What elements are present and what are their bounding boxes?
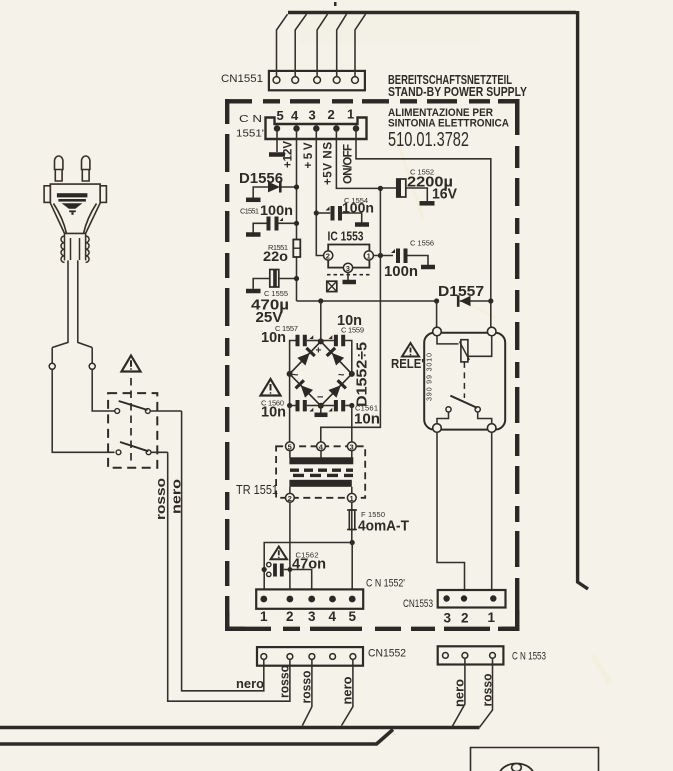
capacitor C1559 plates <box>336 335 343 346</box>
wire C1555 right lead <box>279 278 297 280</box>
svg-text:C 1556: C 1556 <box>410 239 434 248</box>
svg-text:16V: 16V <box>432 187 457 203</box>
svg-text:TR 1551: TR 1551 <box>236 483 278 497</box>
resistor R1551 body <box>293 240 300 258</box>
switch actuator dashed <box>130 378 132 463</box>
pin 5 of CN1551 <box>352 77 359 84</box>
wire CN1552 pin2 rosso <box>168 452 290 701</box>
capacitor C1557 plates <box>298 335 305 346</box>
ground C1552 <box>420 201 435 206</box>
svg-text:SINTONIA ELETTRONICA: SINTONIA ELETTRONICA <box>388 117 509 129</box>
diode D1556 cathode bar <box>279 181 282 193</box>
TR core dashes <box>290 469 353 472</box>
wire right page border <box>578 11 588 589</box>
dashed border left <box>225 99 229 629</box>
wire relay contact left to bottom-left <box>437 412 449 424</box>
CN1553 pin b <box>462 653 468 659</box>
svg-text:22o: 22o <box>263 249 288 264</box>
capacitor C1562 plates <box>275 564 282 577</box>
plug right prong <box>82 156 90 181</box>
capacitor C1551 plates <box>269 217 277 231</box>
pin 1 of CN1551 <box>273 77 280 84</box>
svg-text:+12V: +12V <box>283 141 295 168</box>
wire IC pin1 to rail <box>373 255 393 257</box>
dashed border top <box>225 99 519 103</box>
wire fuse junction down to pin5 <box>351 543 353 591</box>
diode bridge lower-right <box>328 380 346 398</box>
wire relay bottom-right down <box>491 432 493 590</box>
plug left prong <box>55 156 63 181</box>
crossed box symbol <box>327 281 337 291</box>
wire right branch <box>92 348 114 412</box>
relay contact left <box>446 407 451 412</box>
C1559 mark <box>329 335 333 339</box>
ground bridge bottom <box>320 406 322 413</box>
plug left ear <box>44 186 50 203</box>
junction relay right <box>488 298 493 303</box>
wire relay contact right to bottom-right <box>478 412 492 424</box>
switch 2 blade <box>120 442 148 451</box>
wire C1561 left lead <box>321 405 334 407</box>
wire +5V rail <box>316 127 323 256</box>
pin 3 of CN1551 <box>314 77 321 84</box>
relay coil body <box>461 340 468 362</box>
wire C1551 left lead <box>253 223 267 232</box>
wire C1559 left lead <box>321 340 334 342</box>
ground IC1553 pin3 <box>347 272 349 280</box>
svg-text:1: 1 <box>350 494 354 503</box>
svg-text:rosso: rosso <box>300 670 314 703</box>
wire C1557 left lead <box>290 341 296 374</box>
wire ON/OFF <box>356 127 491 301</box>
svg-text:3: 3 <box>444 611 452 626</box>
MAINS PLUG <box>44 156 106 233</box>
wire CN1553 rosso <box>480 658 493 727</box>
wire C1555 left lead <box>253 279 269 289</box>
wire D1556 cathode to rail <box>280 186 296 188</box>
wire +12V rail <box>296 127 298 301</box>
wire CN1553 nero <box>452 658 465 726</box>
svg-text:5: 5 <box>349 609 357 624</box>
pin 5 dot <box>274 125 280 131</box>
wire relay top-left lead <box>436 301 438 327</box>
C1562 contact circles <box>267 562 271 566</box>
svg-text:4omA-T: 4omA-T <box>358 519 409 535</box>
plug body <box>50 184 100 233</box>
C1557 mark <box>310 335 314 339</box>
CN1553 pin a <box>443 653 449 659</box>
svg-text:1: 1 <box>347 107 354 122</box>
junction D1556/rail <box>294 184 299 189</box>
transformer dashed box <box>276 446 365 498</box>
relay terminal top-left <box>433 327 442 336</box>
switch 2 contact left <box>116 450 121 455</box>
connector CN1553 body <box>438 646 504 664</box>
C1551 polarity mark <box>280 218 284 222</box>
dashed line under IC1553 <box>327 274 370 276</box>
CN1552 pin 4 <box>330 654 336 660</box>
svg-text:C N 1552': C N 1552' <box>366 578 405 590</box>
svg-text:RELE': RELE' <box>391 356 424 371</box>
switch 1 blade <box>119 401 148 410</box>
svg-text:IC 1553: IC 1553 <box>328 230 364 244</box>
svg-text:1: 1 <box>260 609 268 624</box>
relay terminal bottom-left <box>433 424 442 433</box>
pin 1 dot <box>353 125 359 131</box>
CN1552 pin 2 <box>287 654 293 660</box>
cable terminal right <box>89 363 95 369</box>
wire rail y301 <box>297 300 491 302</box>
wire pin1 to bus <box>277 14 288 76</box>
wire C1559 right lead <box>345 341 352 374</box>
warning triangle relay <box>402 343 419 357</box>
svg-text:nero: nero <box>169 479 184 514</box>
diode bridge upper-left <box>297 348 315 366</box>
svg-text:C N 1553: C N 1553 <box>512 651 546 663</box>
svg-text:4: 4 <box>329 609 337 624</box>
capacitor C1555 body <box>270 270 279 288</box>
wire C1552 left lead <box>380 187 397 189</box>
wire relay bottom-left down <box>437 432 465 590</box>
diode bridge upper-right <box>327 348 345 366</box>
capacitor C1560 plates <box>298 400 305 411</box>
svg-text:nero: nero <box>453 679 467 707</box>
capacitor C1561 plates <box>336 400 343 411</box>
bridge diamond <box>290 341 352 405</box>
svg-text:D1552÷5: D1552÷5 <box>355 342 371 407</box>
svg-text:2: 2 <box>326 252 330 261</box>
connector CN1553' body <box>438 590 506 608</box>
svg-text:4: 4 <box>291 108 299 123</box>
svg-text:100n: 100n <box>384 264 418 280</box>
pin 4 of CN1551 <box>333 77 340 84</box>
rail x380 vertical <box>321 188 381 444</box>
svg-text:2: 2 <box>288 494 292 503</box>
wire bridge top stem <box>320 301 322 341</box>
wire pin4 to bus <box>337 14 347 76</box>
C1560 mark <box>310 408 314 412</box>
relay coil wire to top-right <box>468 336 492 357</box>
bottom-right box (next drawing) <box>471 748 599 771</box>
junction bridge top <box>318 338 324 344</box>
svg-text:~: ~ <box>292 370 299 382</box>
svg-text:1551': 1551' <box>236 129 264 140</box>
junction C1562 left <box>262 567 267 572</box>
svg-text:rosso: rosso <box>278 665 292 698</box>
wire left rail to TR pin5 <box>289 406 291 443</box>
dashed border right <box>515 99 519 631</box>
pin 3 dot <box>313 125 319 131</box>
junction C1560 left rail <box>287 403 292 408</box>
svg-text:3: 3 <box>346 264 350 273</box>
junction C1562/TR pin2 wire <box>288 567 293 572</box>
svg-text:−: − <box>317 392 323 404</box>
wire TR pin2 down <box>289 502 291 590</box>
wire TR pin1 to fuse <box>351 502 353 542</box>
switch 1 contact left <box>115 409 120 414</box>
svg-text:~: ~ <box>338 370 345 382</box>
wire left branch <box>52 348 114 453</box>
relay coil wire from top-left <box>437 336 459 344</box>
plug inner curves <box>54 204 97 234</box>
svg-text:rosso: rosso <box>481 673 495 706</box>
svg-text:+5V NS: +5V NS <box>323 142 335 185</box>
svg-text:1: 1 <box>367 252 371 261</box>
wire CN1552 pin1 nero <box>182 411 264 691</box>
svg-text:ON/OFF: ON/OFF <box>343 144 355 184</box>
diode D1557 triangle <box>460 296 471 306</box>
dashed border bottom <box>225 627 519 631</box>
svg-text:nero: nero <box>236 677 264 691</box>
dashed border corner bottom-left solid <box>227 612 245 629</box>
svg-text:1: 1 <box>488 610 496 625</box>
capacitor C1554 plates <box>333 206 341 221</box>
wire top bus <box>288 11 576 14</box>
dashed border corner bottom-right solid <box>498 600 517 629</box>
junction bridge left <box>287 371 293 377</box>
diode D1557 cathode bar <box>457 295 460 307</box>
connector CN1552 body <box>257 647 363 666</box>
pin 4 dot <box>293 125 299 131</box>
TR secondary winding leads <box>290 487 352 494</box>
CN1552' pin 2 dot <box>287 596 294 603</box>
IC1553 box <box>328 245 369 268</box>
dashed border corner top-right solid <box>498 101 517 135</box>
CN1552' pin 4 dot <box>329 596 336 603</box>
ground C1555 <box>246 289 261 294</box>
wire C1557 right lead <box>307 340 321 342</box>
relay contact right <box>475 407 480 412</box>
wire C1560 right lead <box>307 405 321 407</box>
IC1553 pin 2 circle <box>324 251 333 260</box>
wire CN1552 pin5 nero <box>342 659 353 725</box>
svg-text:C 1559: C 1559 <box>341 326 364 335</box>
switch 2 contact right <box>146 450 151 455</box>
junction bridge bottom <box>318 403 324 409</box>
wire C1561 right lead <box>345 405 352 407</box>
warning triangle C1560 <box>261 379 281 396</box>
connector CN1551 body <box>269 71 365 90</box>
pin 2 dot <box>333 125 339 131</box>
svg-text:D1556: D1556 <box>239 171 283 187</box>
svg-text:+5V: +5V <box>303 142 315 168</box>
TR pin 3 <box>347 442 356 451</box>
CN1553 pin c <box>490 653 496 659</box>
junction D1557/relay left <box>434 298 439 303</box>
diode D1556 triangle <box>268 182 280 193</box>
svg-text:STAND-BY POWER SUPPLY: STAND-BY POWER SUPPLY <box>388 85 527 99</box>
wire bottom thick line B <box>0 730 393 745</box>
ground under pin5 <box>269 152 285 157</box>
warning triangle switch <box>122 356 141 372</box>
svg-text:CN1551: CN1551 <box>221 73 263 85</box>
CN1552 pin 3 <box>309 654 315 660</box>
ground C1554 <box>355 222 369 227</box>
wire bottom thick line A <box>0 726 480 730</box>
CN1553' pin 1 dot <box>490 595 496 601</box>
svg-text:2: 2 <box>328 107 335 122</box>
svg-text:CN1553: CN1553 <box>403 598 433 610</box>
capacitor C1552 body <box>397 179 406 197</box>
svg-text:5: 5 <box>277 108 284 123</box>
svg-text:100n: 100n <box>260 203 293 218</box>
TR primary winding leads <box>290 451 352 458</box>
svg-text:10n: 10n <box>354 412 380 428</box>
plug right ear <box>100 186 106 203</box>
CN1552' pin 1 dot <box>260 596 267 603</box>
junction C1561 right rail <box>349 403 354 408</box>
warning triangle C1562 <box>271 547 287 560</box>
wire relay top-right lead <box>490 301 492 327</box>
wire pin2 to bus <box>295 14 306 76</box>
wire +5VNS <box>336 127 380 188</box>
TR pin 2 <box>286 493 295 502</box>
wire pin5 down <box>276 129 278 153</box>
junction fuse/CN1552'pin5 <box>350 540 355 545</box>
wire CN1552 pin3 rosso <box>302 659 312 725</box>
junction bridge+/rail <box>318 298 323 303</box>
ground C1551 <box>246 232 261 237</box>
wire junction left to C1562 <box>264 543 352 591</box>
connector CN1551' housing <box>266 118 367 140</box>
svg-text:3: 3 <box>309 108 316 123</box>
svg-text:390 99 3010: 390 99 3010 <box>425 353 434 401</box>
wire C1552 right lead <box>406 188 428 201</box>
wire D1556 anode <box>253 187 268 198</box>
connector CN1552' body <box>256 589 363 608</box>
svg-text:2: 2 <box>286 609 294 624</box>
wire right rail to TR pin3 <box>351 406 353 443</box>
ink speck <box>334 2 337 6</box>
pin 2 of CN1551 <box>292 77 299 84</box>
CN1552 pin 5 <box>350 654 356 660</box>
CN1553' pin 3 dot <box>443 595 449 601</box>
TR pin 5 <box>286 442 295 451</box>
IC1553 pin 3 circle <box>343 263 352 272</box>
junction C1555/rail <box>294 276 299 281</box>
CN1552' pin 5 dot <box>349 596 356 603</box>
junction C1554/+5V rail <box>314 210 319 215</box>
junction bridge right <box>349 371 355 377</box>
relay switch blade <box>450 396 477 408</box>
wire C1556 right lead <box>408 256 429 266</box>
svg-text:C1551: C1551 <box>240 207 259 216</box>
relay box <box>424 333 505 430</box>
svg-text:CN1552: CN1552 <box>368 648 406 660</box>
svg-text:rosso: rosso <box>153 478 168 520</box>
TR pin 4 <box>317 442 326 451</box>
svg-text:2: 2 <box>461 611 469 626</box>
svg-text:3: 3 <box>350 442 354 451</box>
CN1552 pin 1 <box>261 654 267 660</box>
svg-text:C N: C N <box>239 114 262 125</box>
wire pin3 to bus <box>317 14 327 76</box>
svg-text:3: 3 <box>308 609 316 624</box>
TR pin 1 <box>347 493 356 502</box>
TR primary winding bar <box>289 457 353 464</box>
svg-text:10n: 10n <box>261 330 286 346</box>
junction C1551/rail <box>294 221 299 226</box>
svg-text:510.01.3782: 510.01.3782 <box>388 129 469 151</box>
C1561 mark <box>329 408 333 412</box>
IC1553 pin 1 circle <box>364 251 373 260</box>
relay actuator dashed <box>463 362 465 398</box>
wire C1562 right lead <box>284 570 312 591</box>
cable terminal left <box>49 363 55 369</box>
C1554 polarity mark <box>326 207 330 211</box>
wire C1560 left lead <box>290 374 296 406</box>
wire C1551 right lead <box>279 222 297 224</box>
diode bridge lower-left <box>296 380 314 398</box>
switch dashed box <box>108 393 157 468</box>
C1556 polarity mark <box>391 249 395 253</box>
relay terminal bottom-right <box>487 424 496 433</box>
mains cable <box>52 260 92 347</box>
junction C1552/rail380 top <box>378 186 383 191</box>
CN1553' pin 2 dot <box>461 595 467 601</box>
svg-text:5: 5 <box>288 442 292 451</box>
ground C1556 <box>421 265 435 270</box>
svg-text:10n: 10n <box>261 405 286 421</box>
plug strain relief <box>61 233 89 262</box>
svg-text:100n: 100n <box>342 201 374 216</box>
svg-text:nero: nero <box>341 676 355 704</box>
wire switch2 right out <box>151 451 168 453</box>
TR secondary winding bar <box>289 480 351 487</box>
switch 1 contact right <box>145 409 150 414</box>
relay terminal top-right <box>487 327 496 336</box>
svg-text:+: + <box>316 346 322 357</box>
wire switch1 right out <box>150 410 181 412</box>
wire C1554 left lead <box>316 212 330 214</box>
wire C1554 right lead <box>342 213 362 223</box>
svg-text:D1557: D1557 <box>438 284 484 300</box>
ground D1556 <box>252 198 254 200</box>
capacitor C1556 plates <box>398 249 406 264</box>
plug hatch grip <box>57 193 88 215</box>
junction IC pin1/rail380 <box>378 253 383 258</box>
CN1552' pin 3 dot <box>308 596 315 603</box>
wire pin5 to bus <box>355 14 366 76</box>
fuse F1550 body <box>349 510 355 530</box>
